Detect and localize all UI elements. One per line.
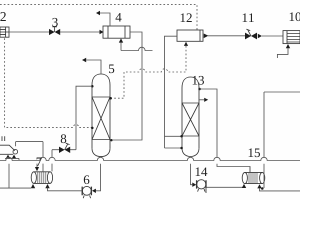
wire column 13 side draw arrow xyxy=(199,99,204,101)
wire vessel 4 right outlet down to column 5 feed xyxy=(113,32,142,140)
wire pump 14 discharge to exchanger 15 xyxy=(205,186,244,188)
wire dashed from exchanger 2 bottom down and right to column 5 xyxy=(5,38,92,127)
column 5 xyxy=(92,74,110,157)
wire from valve 8 down to exchanger 7 (crosses main line) xyxy=(51,150,53,172)
node label 10 xyxy=(290,12,301,21)
node label 12 xyxy=(181,13,192,22)
wire column 13 overhead to exchanger 15 (crosses main line) xyxy=(200,89,251,172)
wire right side loop from top line down to exchanger 15 (crosses main line) xyxy=(264,92,300,188)
node label 11 xyxy=(243,13,254,22)
wire valve 3 to vessel 4 xyxy=(60,31,100,33)
wire valve 11 to exchanger 10 xyxy=(262,35,283,37)
wire vessel 12 bottom dashed arrow xyxy=(184,42,188,46)
node label 14 xyxy=(196,167,208,176)
node column 13 nozzles xyxy=(180,88,201,150)
wire valve 8 piping xyxy=(52,149,76,151)
node column 5 nozzles xyxy=(91,85,112,129)
valve 8 xyxy=(59,147,70,153)
wire column 5 reflux left down to valve 8 xyxy=(76,86,92,150)
wire pump 6 discharge to exchanger 7 xyxy=(48,188,83,191)
wire vessel 4 top vent with arrow xyxy=(100,13,110,26)
wire vessel 12 outlet arrow to valve 11 xyxy=(204,34,209,39)
wire exchanger 15 right bottom outlet xyxy=(257,184,261,188)
node label 15 xyxy=(249,148,260,157)
wire from vessel 1 up-right over to exchanger 7 (crosses main line) xyxy=(16,142,43,172)
wire dashed from vessel 12 bottom to column 5 upper side xyxy=(113,46,186,98)
wire vessel 1 bottom feed arrows xyxy=(5,158,19,160)
wire main bottoms line across full width with crossing humps xyxy=(0,157,300,160)
valve 3 xyxy=(49,29,60,35)
wire exchanger 7 bottom arrows xyxy=(31,184,50,188)
heat exchanger 15 xyxy=(242,172,265,183)
valve 11 xyxy=(245,33,262,40)
column 13 xyxy=(182,77,199,157)
node label 7 xyxy=(37,157,42,166)
wire vessel 4 bottom line xyxy=(119,38,123,42)
node label 5 xyxy=(109,64,114,73)
wire exchanger 7 top-left stub with down arrow xyxy=(36,164,38,167)
node label 13 xyxy=(193,76,204,85)
wire exchanger 15 top stub xyxy=(249,167,251,173)
pump 14 xyxy=(192,183,196,187)
vessel 4 xyxy=(103,26,130,38)
vessel 12 xyxy=(177,30,203,41)
wire vessel 12 left line down to column 13 xyxy=(165,36,182,148)
wire feed line to valve 3 xyxy=(9,31,49,33)
node label 8 xyxy=(61,134,67,143)
pump 6 xyxy=(92,189,96,193)
wire dashed control line top xyxy=(0,5,197,30)
heat exchanger 2 xyxy=(0,27,9,37)
wire riser from bottom-left line up to vessel 1 xyxy=(8,164,10,188)
node label 2 xyxy=(0,12,5,21)
heat exchanger 7 xyxy=(31,172,52,184)
vessel 1 xyxy=(0,136,18,154)
wire exchanger 10 bottom inlet xyxy=(286,44,290,48)
wire pump 14 suction from column 13 bottoms xyxy=(191,164,193,185)
wire bottom-left line from exchanger 7 to left edge xyxy=(0,187,31,189)
heat exchanger 10 xyxy=(283,31,300,44)
wire pump 6 suction from column 5 bottoms xyxy=(96,164,101,191)
node label 3 xyxy=(52,18,57,27)
wire column 5 top vent with arrow xyxy=(86,60,101,74)
node label 4 xyxy=(116,13,122,22)
node label 6 xyxy=(84,175,90,184)
